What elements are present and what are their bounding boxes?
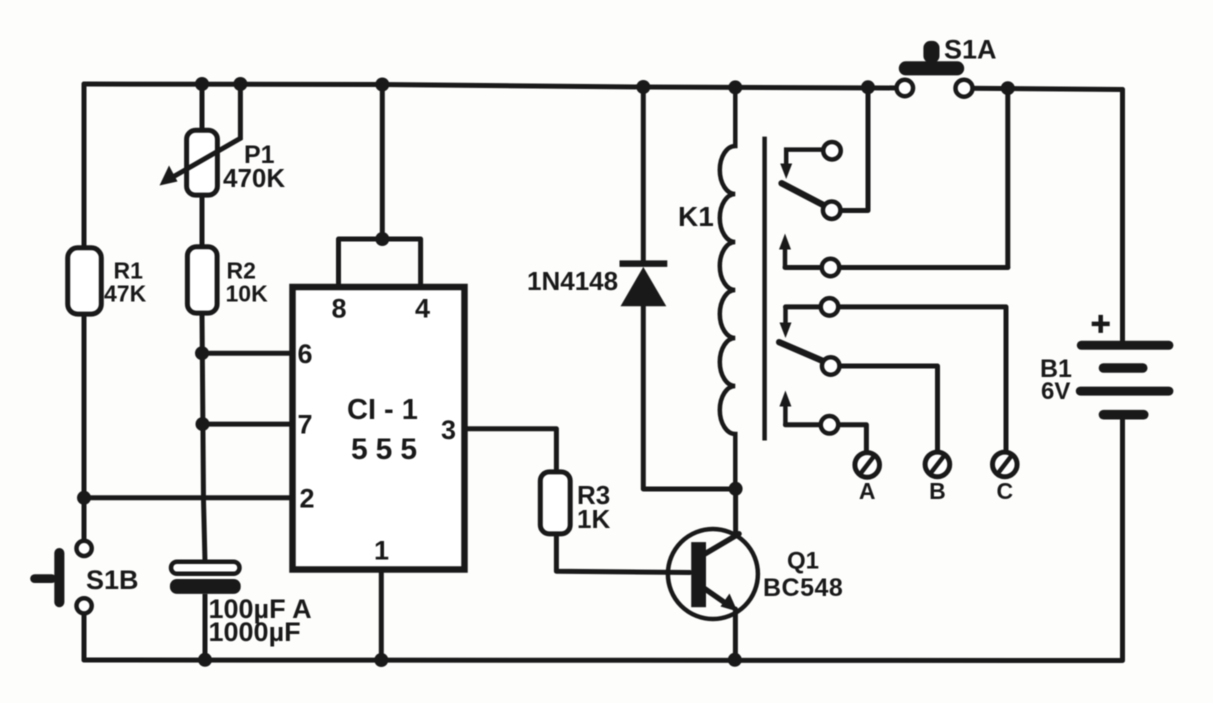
wire P1 to R2 bbox=[200, 195, 205, 247]
relay contact row4 blade bbox=[779, 342, 831, 364]
svg-text:555: 555 bbox=[351, 433, 425, 466]
potentiometer P1 bbox=[160, 84, 286, 195]
terminal A bbox=[855, 453, 880, 504]
wire right rail upper bbox=[1120, 90, 1125, 342]
wire contact row5 to terminal A bbox=[785, 425, 866, 452]
svg-text:6: 6 bbox=[297, 339, 312, 369]
junction collector diode coil node bbox=[729, 482, 743, 496]
wire diode cathode to top rail bbox=[641, 87, 646, 261]
junction pin 6 node bbox=[195, 346, 209, 360]
svg-text:BC548: BC548 bbox=[763, 574, 843, 602]
svg-text:6V: 6V bbox=[1041, 378, 1070, 405]
junction top rail IC supply bbox=[375, 78, 389, 92]
svg-text:B: B bbox=[929, 478, 946, 504]
wire top rail right bbox=[964, 88, 1123, 89]
junction top rail diode bbox=[636, 80, 650, 94]
wire diode anode to collector node bbox=[643, 306, 735, 489]
transistor Q1 bbox=[668, 529, 843, 619]
wire pin 3 to R3 bbox=[463, 429, 556, 472]
svg-text:1000µF: 1000µF bbox=[209, 617, 301, 647]
op-amp U1 timer IC CI-1 555 box bbox=[293, 287, 465, 570]
relay contact row1 blade bbox=[782, 183, 831, 209]
svg-text:CI - 1: CI - 1 bbox=[347, 394, 418, 426]
wire S1A right to relay contact row2 bbox=[1005, 88, 1010, 267]
relay contact row5 terminal bbox=[821, 416, 839, 434]
junction bottom rail pin 1 bbox=[374, 653, 388, 667]
wire S1A left to relay contact row1 bbox=[840, 87, 868, 210]
resistor R1 bbox=[68, 248, 147, 314]
relay contact row1 NC wire and actuation arrow bbox=[780, 150, 823, 179]
wire left rail bbox=[82, 84, 87, 541]
svg-text:S1A: S1A bbox=[944, 35, 997, 65]
relay contact row4 terminal bbox=[822, 357, 840, 375]
svg-text:470K: 470K bbox=[223, 163, 285, 193]
junction top rail relay coil bbox=[728, 80, 742, 94]
resistor R2 bbox=[187, 247, 268, 313]
svg-text:A: A bbox=[859, 478, 876, 504]
svg-text:47K: 47K bbox=[104, 281, 147, 307]
svg-text:C: C bbox=[996, 478, 1013, 504]
wire left rail lower bbox=[82, 613, 87, 660]
terminal C bbox=[993, 452, 1018, 504]
svg-text:Q1: Q1 bbox=[787, 548, 819, 575]
relay K1 armature bar bbox=[762, 137, 767, 441]
wire pin 1 to bottom rail bbox=[379, 568, 384, 660]
wire pins 8 and 4 to top rail bbox=[339, 85, 421, 287]
svg-text:8: 8 bbox=[331, 294, 346, 324]
relay contact row2 terminal bbox=[822, 259, 840, 277]
terminal B bbox=[925, 452, 950, 504]
pushbutton switch S1B bbox=[30, 541, 138, 614]
junction pin 7 node bbox=[196, 417, 210, 431]
wire pin 6 to R2 leg bbox=[202, 351, 290, 356]
wire collector bbox=[733, 489, 738, 534]
relay contact row5 actuation arrow bbox=[779, 391, 791, 425]
svg-text:1N4148: 1N4148 bbox=[527, 266, 618, 296]
wire bottom rail bbox=[84, 658, 1122, 664]
relay contact row1 bottom terminal bbox=[823, 201, 841, 219]
junction top rail P1 left bbox=[195, 77, 209, 91]
junction top rail S1A right bbox=[1001, 81, 1015, 95]
svg-text:3: 3 bbox=[441, 415, 456, 445]
wire pin 7 to R2 leg bbox=[203, 422, 291, 427]
relay contact row3 terminal bbox=[821, 298, 839, 316]
wire contact row4 to terminal B bbox=[831, 366, 938, 452]
wire top rail left bbox=[84, 84, 905, 88]
resistor R3 bbox=[540, 472, 610, 534]
wire R3 to base Q1 bbox=[556, 534, 690, 573]
relay K1 coil bbox=[678, 87, 735, 489]
svg-text:1K: 1K bbox=[577, 504, 610, 534]
junction bottom rail capacitor bbox=[198, 653, 212, 667]
relay contact row1 top terminal bbox=[823, 142, 841, 160]
wire pin 2 to left rail bbox=[84, 495, 290, 500]
battery B1 bbox=[1040, 315, 1173, 420]
svg-text:K1: K1 bbox=[678, 201, 714, 232]
junction top rail P1 wiper bbox=[233, 77, 247, 91]
junction pin 2 left rail bbox=[77, 491, 91, 505]
wire R2 to capacitor bbox=[202, 313, 205, 562]
junction pins 8-4 bracket bbox=[375, 232, 389, 246]
svg-text:2: 2 bbox=[299, 484, 314, 514]
svg-text:1: 1 bbox=[374, 536, 389, 566]
svg-text:10K: 10K bbox=[226, 281, 269, 307]
diode D1 1N4148 bbox=[527, 264, 667, 307]
wire right rail lower bbox=[1120, 419, 1125, 661]
relay contact row2 actuation arrow bbox=[779, 234, 791, 268]
wire P1 top terminal bbox=[200, 84, 205, 131]
pushbutton switch S1A bbox=[897, 35, 997, 97]
svg-text:4: 4 bbox=[415, 294, 430, 324]
wire contact row2 bbox=[785, 265, 1008, 270]
junction top rail S1A left bbox=[861, 80, 875, 94]
svg-text:S1B: S1B bbox=[86, 565, 139, 595]
wire emitter to bottom rail bbox=[733, 609, 738, 660]
svg-text:7: 7 bbox=[297, 410, 312, 440]
junction bottom rail emitter bbox=[728, 653, 742, 667]
relay contact row3 actuation arrow bbox=[780, 307, 792, 338]
capacitor C1 bbox=[170, 562, 312, 660]
wire contact row3 to terminal C bbox=[786, 307, 1007, 452]
